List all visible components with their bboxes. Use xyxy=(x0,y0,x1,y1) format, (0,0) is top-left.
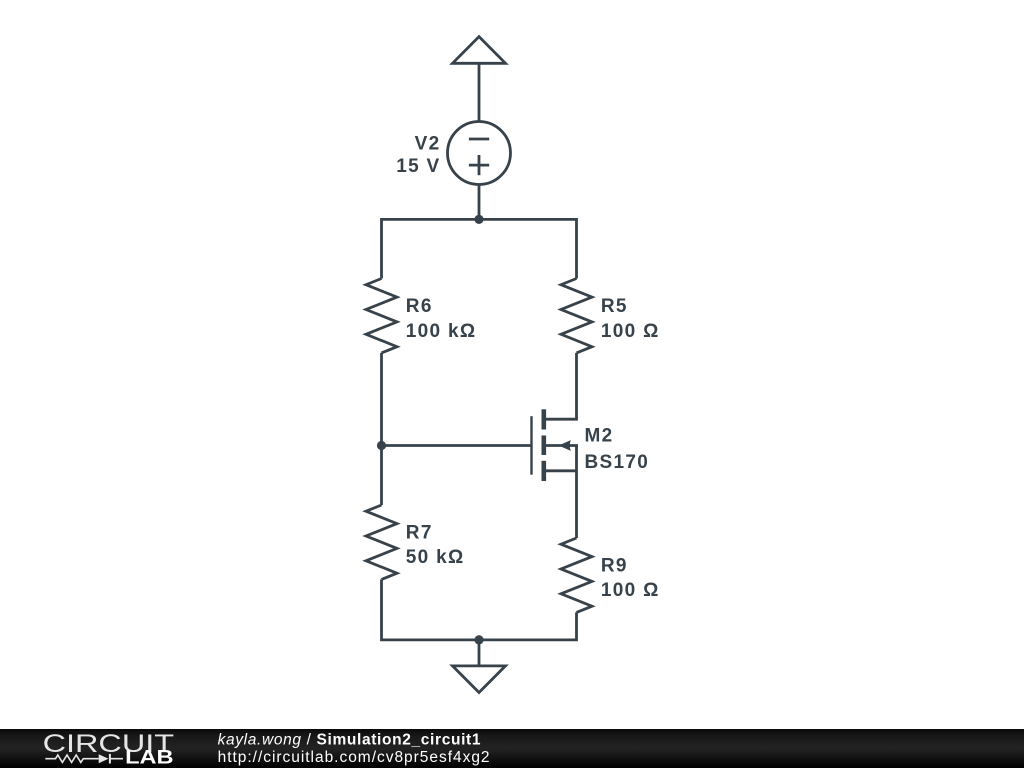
wire xyxy=(382,579,577,640)
label M2 xyxy=(585,425,650,473)
label R9 xyxy=(601,556,660,602)
svg-text:R7: R7 xyxy=(406,523,433,544)
junction xyxy=(474,635,483,644)
resistor R6 xyxy=(366,279,397,353)
footer text xyxy=(218,732,491,766)
resistor R9 xyxy=(561,538,592,612)
svg-text:V2: V2 xyxy=(415,134,441,155)
label R5 xyxy=(601,296,660,342)
label V2 xyxy=(396,134,440,177)
wire xyxy=(478,640,481,666)
svg-text:100 Ω: 100 Ω xyxy=(601,580,660,601)
voltage source V2 xyxy=(448,122,511,185)
svg-text:M2: M2 xyxy=(585,425,614,446)
svg-text:R9: R9 xyxy=(601,556,628,577)
svg-text:100 kΩ: 100 kΩ xyxy=(406,321,477,342)
resistor R5 xyxy=(561,279,592,353)
wire xyxy=(575,353,578,419)
svg-text:R5: R5 xyxy=(601,296,628,317)
svg-text:kayla.wong / Simulation2_circu: kayla.wong / Simulation2_circuit1 xyxy=(218,732,482,749)
wire xyxy=(382,219,577,278)
svg-text:LAB: LAB xyxy=(125,747,174,768)
CircuitLab logo xyxy=(43,730,175,768)
wire xyxy=(478,184,481,219)
wire xyxy=(575,446,578,539)
svg-text:http://circuitlab.com/cv8pr5es: http://circuitlab.com/cv8pr5esf4xg2 xyxy=(218,749,491,766)
svg-text:100 Ω: 100 Ω xyxy=(601,321,660,342)
power flag xyxy=(453,37,506,64)
transistor M2 xyxy=(532,409,578,481)
resistor R7 xyxy=(366,505,397,579)
footer bar xyxy=(0,729,1024,768)
label R6 xyxy=(406,296,477,342)
svg-text:R6: R6 xyxy=(406,296,433,317)
ground xyxy=(453,666,506,693)
wire xyxy=(382,444,532,447)
wire xyxy=(380,353,383,505)
label R7 xyxy=(406,523,465,569)
wire xyxy=(478,63,481,122)
svg-text:BS170: BS170 xyxy=(585,452,650,473)
svg-text:15 V: 15 V xyxy=(396,156,440,177)
svg-text:50 kΩ: 50 kΩ xyxy=(406,547,465,568)
junction xyxy=(474,215,483,224)
junction xyxy=(377,441,386,450)
